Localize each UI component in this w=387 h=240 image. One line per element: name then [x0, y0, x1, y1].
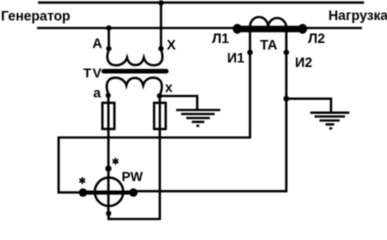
- svg-text:Л2: Л2: [308, 31, 326, 46]
- svg-text:А: А: [92, 36, 102, 51]
- svg-text:Х: Х: [167, 38, 176, 53]
- svg-text:ТV: ТV: [83, 66, 102, 81]
- svg-text:Генератор: Генератор: [1, 8, 70, 23]
- svg-text:Нагрузка: Нагрузка: [328, 8, 387, 23]
- svg-text:PW: PW: [122, 169, 144, 184]
- svg-text:Л1: Л1: [212, 31, 230, 46]
- svg-text:И2: И2: [295, 55, 313, 70]
- svg-text:ТА: ТА: [260, 38, 277, 53]
- svg-text:а: а: [93, 85, 101, 100]
- svg-text:х: х: [165, 80, 173, 95]
- svg-text:И1: И1: [227, 50, 245, 65]
